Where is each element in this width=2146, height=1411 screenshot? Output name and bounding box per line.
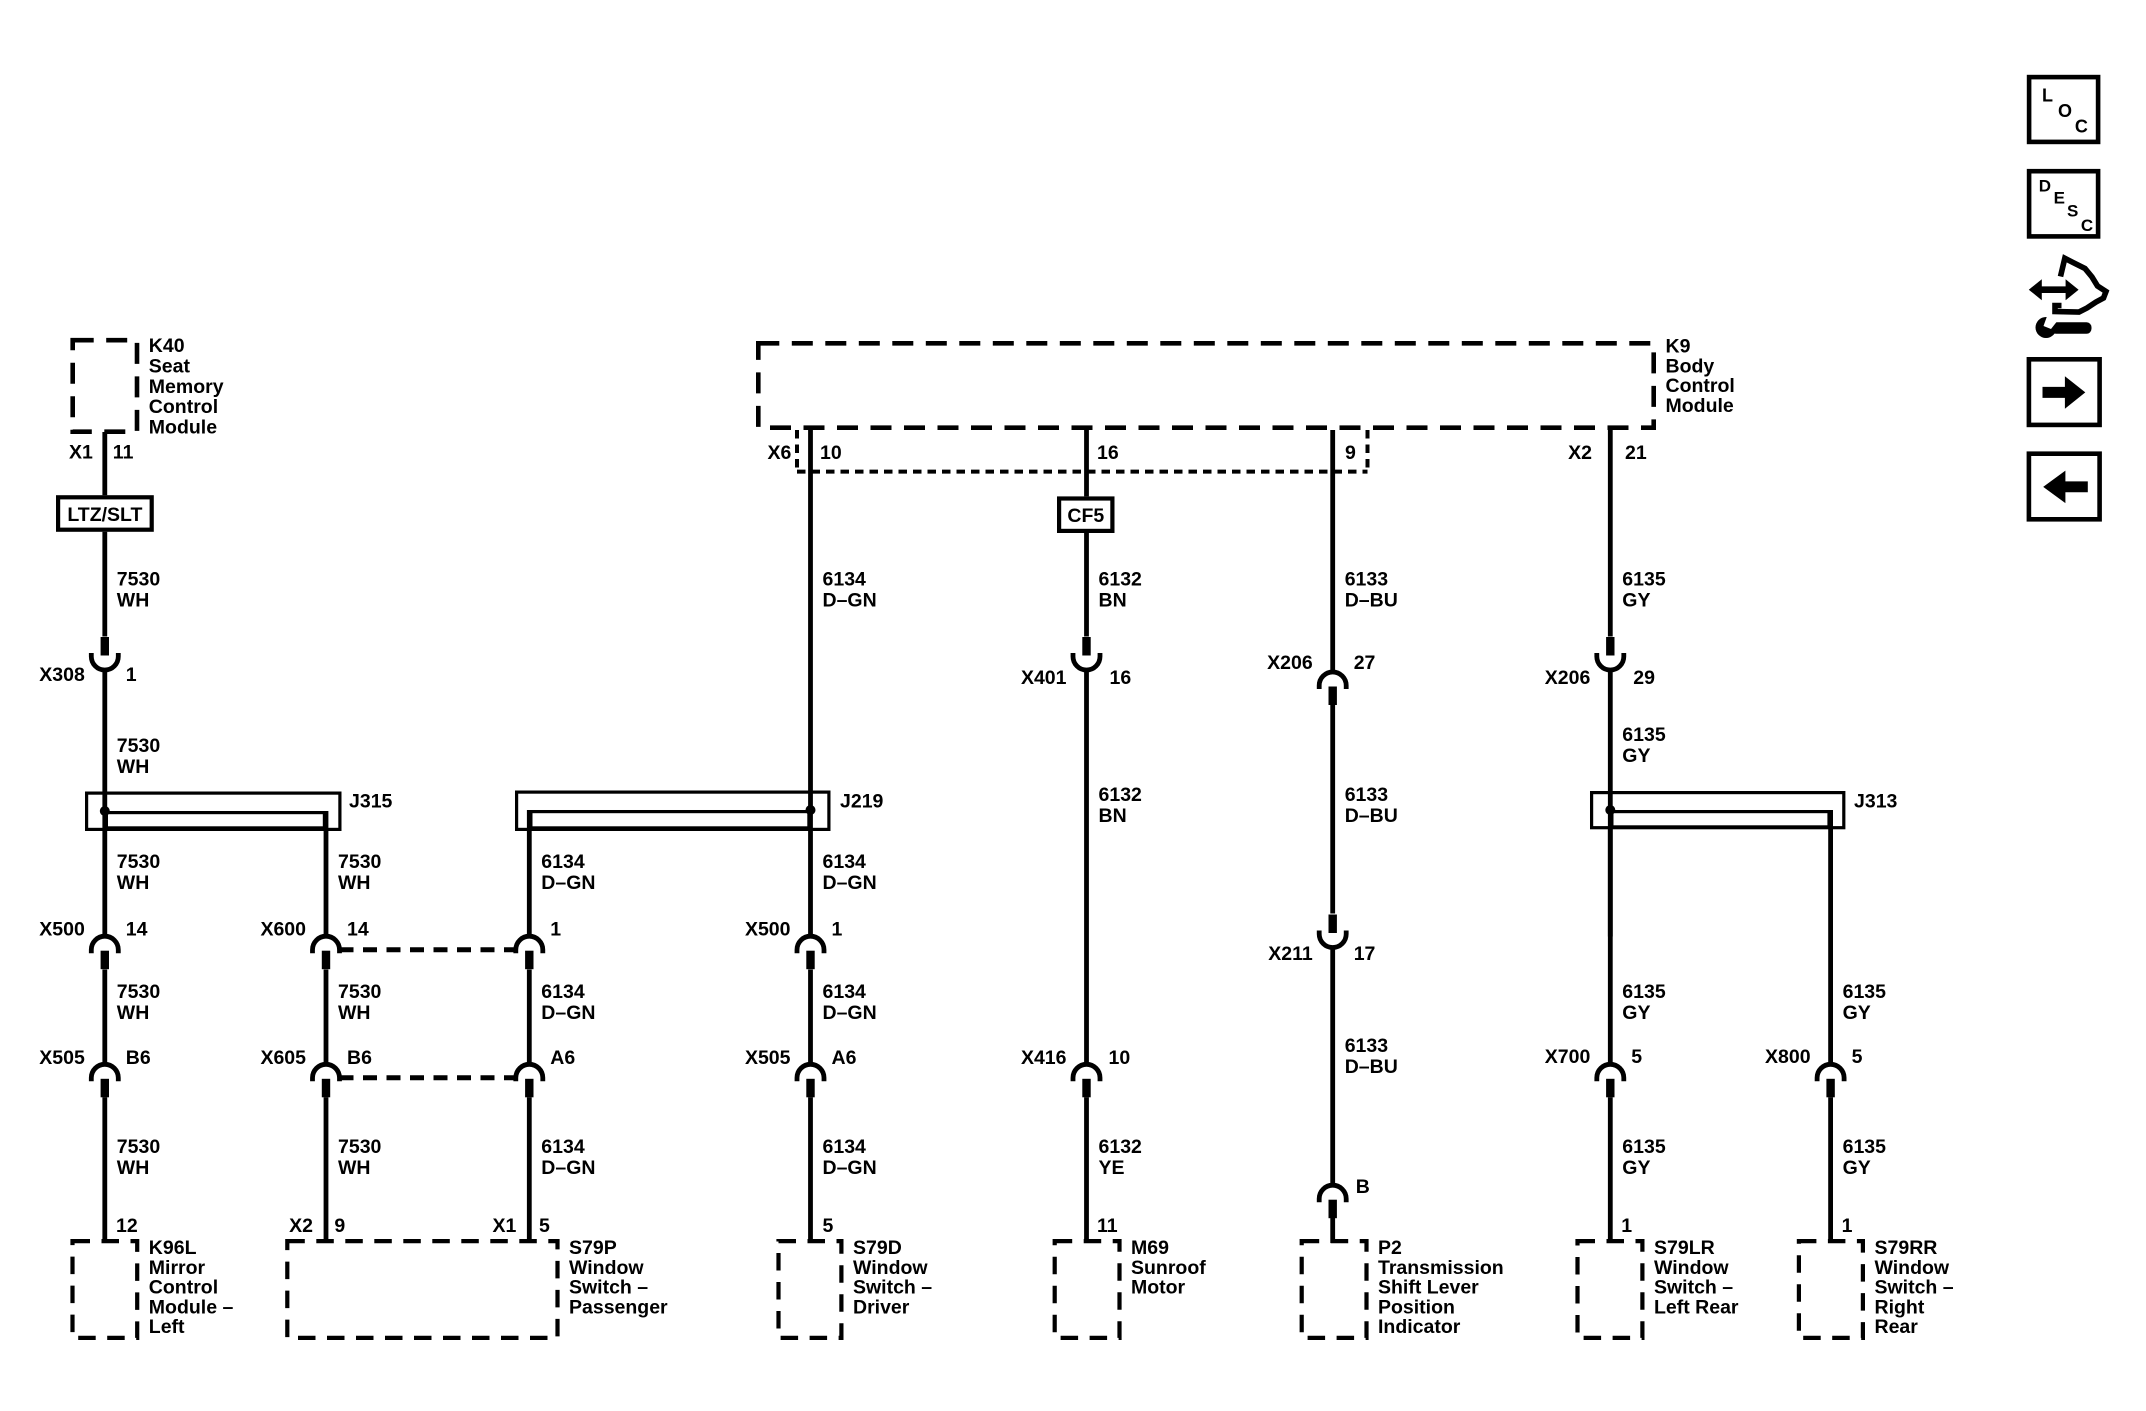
wire 6132 BN CF5 to X401 xyxy=(1084,533,1089,637)
svg-text:Sunroof: Sunroof xyxy=(1131,1257,1206,1279)
svg-text:BN: BN xyxy=(1099,590,1127,612)
svg-text:Control: Control xyxy=(149,396,218,418)
svg-text:M69: M69 xyxy=(1131,1237,1169,1259)
svg-text:O: O xyxy=(2058,101,2072,121)
module K96L Mirror Control Module - Left xyxy=(73,1241,138,1338)
wire 6134 D-GN X505 to S79D xyxy=(808,1097,813,1243)
wire 6135 GY K9 pin21 to X206-29 xyxy=(1608,430,1613,637)
wire 6135 GY J313 to X700 upper xyxy=(1608,829,1613,1064)
svg-text:X401: X401 xyxy=(1021,667,1067,689)
wire 7530 WH X308 to J315 xyxy=(102,670,107,937)
svg-text:X1: X1 xyxy=(69,442,93,464)
svg-text:7530: 7530 xyxy=(117,1136,161,1158)
svg-text:S79RR: S79RR xyxy=(1875,1237,1938,1259)
svg-text:Left Rear: Left Rear xyxy=(1654,1296,1739,1318)
svg-text:X500: X500 xyxy=(39,919,85,941)
wire 6135 GY X206 to J313 xyxy=(1608,670,1613,937)
svg-text:P2: P2 xyxy=(1378,1237,1402,1259)
svg-text:Window: Window xyxy=(1875,1257,1950,1279)
connector X6 bracket of K9 xyxy=(795,430,799,472)
wire 6133 D-BU X206 to X211 xyxy=(1330,705,1335,914)
svg-text:WH: WH xyxy=(338,1157,371,1179)
svg-text:10: 10 xyxy=(1109,1047,1131,1069)
wire 7530 WH X505 to K96L xyxy=(102,1097,107,1243)
svg-text:X2: X2 xyxy=(1568,442,1592,464)
svg-text:6135: 6135 xyxy=(1843,1136,1887,1158)
svg-text:16: 16 xyxy=(1110,667,1132,689)
svg-text:X600: X600 xyxy=(260,919,306,941)
wire 6135 GY X800 to S79RR xyxy=(1828,1097,1833,1243)
svg-text:S79P: S79P xyxy=(569,1237,617,1259)
wire 6135 GY X700 to S79LR xyxy=(1608,1097,1613,1243)
svg-text:Shift Lever: Shift Lever xyxy=(1378,1277,1479,1299)
svg-text:Switch –: Switch – xyxy=(569,1277,648,1299)
module K40 Seat Memory Control Module xyxy=(73,340,137,432)
svg-text:7530: 7530 xyxy=(117,735,161,757)
svg-text:6135: 6135 xyxy=(1843,981,1887,1003)
svg-text:WH: WH xyxy=(117,872,150,894)
svg-text:11: 11 xyxy=(1097,1215,1118,1237)
svg-text:X416: X416 xyxy=(1021,1047,1067,1069)
svg-text:6133: 6133 xyxy=(1345,1035,1389,1057)
svg-text:7530: 7530 xyxy=(338,851,382,873)
svg-text:10: 10 xyxy=(820,442,842,464)
svg-text:Control: Control xyxy=(1666,375,1735,397)
svg-text:Switch –: Switch – xyxy=(853,1277,932,1299)
module S79RR Window Switch - Right Rear xyxy=(1799,1241,1863,1338)
svg-text:Window: Window xyxy=(853,1257,928,1279)
inline connector X500 pin 14 xyxy=(91,936,118,953)
svg-text:Memory: Memory xyxy=(149,376,224,398)
svg-text:7530: 7530 xyxy=(117,851,161,873)
svg-text:Control: Control xyxy=(149,1277,218,1299)
svg-text:J219: J219 xyxy=(840,791,884,813)
icon jump double arrow xyxy=(2029,279,2079,300)
svg-text:Body: Body xyxy=(1666,355,1715,377)
svg-text:GY: GY xyxy=(1622,1002,1650,1024)
icon LOC box xyxy=(2029,77,2098,142)
svg-text:Seat: Seat xyxy=(149,355,191,377)
svg-text:Motor: Motor xyxy=(1131,1277,1186,1299)
svg-text:1: 1 xyxy=(1842,1215,1853,1237)
wire 6132 YE X416 to M69 xyxy=(1084,1097,1089,1243)
svg-text:7530: 7530 xyxy=(117,981,161,1003)
inline connector X800 pin 5 xyxy=(1817,1064,1844,1081)
wire from K9 pin 16 to fuse CF5 xyxy=(1084,430,1089,496)
svg-text:S79LR: S79LR xyxy=(1654,1237,1715,1259)
svg-text:D–GN: D–GN xyxy=(541,1157,595,1179)
svg-text:C: C xyxy=(2081,216,2093,235)
svg-text:6134: 6134 xyxy=(541,851,585,873)
wire 6132 BN X401 to X416 xyxy=(1084,670,1089,1065)
svg-text:27: 27 xyxy=(1354,652,1376,674)
svg-text:Position: Position xyxy=(1378,1296,1455,1318)
svg-text:D–BU: D–BU xyxy=(1345,805,1398,827)
svg-text:Module: Module xyxy=(149,417,217,439)
inline connector X700 pin 5 xyxy=(1597,1064,1624,1081)
svg-text:1: 1 xyxy=(126,664,137,686)
inline connector X211 pin 17 xyxy=(1319,931,1346,948)
splice J313 xyxy=(1592,793,1844,828)
svg-text:14: 14 xyxy=(347,919,369,941)
svg-text:GY: GY xyxy=(1843,1002,1871,1024)
svg-text:Driver: Driver xyxy=(853,1296,910,1318)
svg-text:Passenger: Passenger xyxy=(569,1296,668,1318)
dashed link X600-14 to 1 xyxy=(340,947,516,952)
svg-text:9: 9 xyxy=(1345,442,1356,464)
svg-text:C: C xyxy=(2075,117,2088,137)
splice J219 xyxy=(517,792,829,829)
svg-text:LTZ/SLT: LTZ/SLT xyxy=(67,504,142,526)
inline connector X308 pin 1 xyxy=(91,653,118,670)
svg-text:X206: X206 xyxy=(1545,667,1591,689)
wire 6135 GY J313 to X800 xyxy=(1828,810,1833,1064)
svg-text:6135: 6135 xyxy=(1622,981,1666,1003)
svg-text:9: 9 xyxy=(334,1215,345,1237)
svg-text:6134: 6134 xyxy=(823,851,867,873)
svg-text:YE: YE xyxy=(1099,1157,1125,1179)
svg-text:5: 5 xyxy=(539,1215,550,1237)
svg-text:X605: X605 xyxy=(260,1047,306,1069)
fuse CF5 box xyxy=(1059,499,1112,531)
svg-text:6135: 6135 xyxy=(1622,569,1666,591)
svg-text:D–GN: D–GN xyxy=(541,1002,595,1024)
svg-text:E: E xyxy=(2054,189,2065,208)
inline connector X500 pin 1 xyxy=(797,936,824,953)
svg-text:5: 5 xyxy=(1852,1046,1863,1068)
inline connector pin B xyxy=(1319,1185,1346,1202)
svg-text:L: L xyxy=(2042,85,2053,105)
svg-text:1: 1 xyxy=(1621,1215,1632,1237)
icon DESC box xyxy=(2029,171,2098,236)
svg-text:1: 1 xyxy=(832,919,843,941)
module M69 Sunroof Motor xyxy=(1055,1241,1120,1338)
svg-text:GY: GY xyxy=(1622,745,1650,767)
svg-text:D–GN: D–GN xyxy=(823,590,877,612)
svg-text:Transmission: Transmission xyxy=(1378,1257,1504,1279)
wire 6134 D-GN K9 pin10 to J219 xyxy=(808,430,813,937)
svg-text:X700: X700 xyxy=(1545,1046,1591,1068)
splice J315 xyxy=(87,793,340,829)
svg-text:X2: X2 xyxy=(289,1215,313,1237)
svg-text:B: B xyxy=(1356,1176,1370,1198)
svg-text:D–GN: D–GN xyxy=(823,1157,877,1179)
svg-text:6135: 6135 xyxy=(1622,1136,1666,1158)
svg-text:X1: X1 xyxy=(492,1215,516,1237)
svg-text:X308: X308 xyxy=(39,664,85,686)
svg-text:K9: K9 xyxy=(1666,335,1691,357)
svg-text:14: 14 xyxy=(126,919,148,941)
inline connector X206 pin 29 xyxy=(1597,653,1624,670)
inline connector X401 pin 16 xyxy=(1073,653,1100,670)
svg-text:X206: X206 xyxy=(1267,652,1313,674)
svg-text:Indicator: Indicator xyxy=(1378,1316,1461,1338)
svg-text:Right: Right xyxy=(1875,1296,1925,1318)
svg-text:6132: 6132 xyxy=(1099,569,1143,591)
svg-text:17: 17 xyxy=(1354,943,1376,965)
svg-text:X500: X500 xyxy=(745,919,791,941)
module S79LR Window Switch - Left Rear xyxy=(1578,1241,1643,1338)
wire 7530 WH X600 to X605 xyxy=(324,970,329,1065)
svg-text:GY: GY xyxy=(1622,590,1650,612)
wire from K40 X1-11 to LTZ/SLT box xyxy=(102,432,107,495)
svg-text:6132: 6132 xyxy=(1099,784,1143,806)
svg-text:1: 1 xyxy=(550,919,561,941)
icon jump outline scribble xyxy=(2055,258,2106,312)
dashed link X605-B6 to A6 xyxy=(340,1075,516,1080)
svg-text:A6: A6 xyxy=(550,1047,575,1069)
module K9 Body Control Module xyxy=(758,343,1653,427)
icon next page arrow box xyxy=(2029,359,2100,425)
svg-text:Window: Window xyxy=(1654,1257,1729,1279)
svg-text:6134: 6134 xyxy=(823,1136,867,1158)
svg-text:S79D: S79D xyxy=(853,1237,902,1259)
option label box LTZ/SLT xyxy=(58,497,152,529)
icon previous page arrow box xyxy=(2029,454,2100,520)
svg-text:X211: X211 xyxy=(1268,943,1313,965)
wire 6134 D-GN col3 mid xyxy=(527,970,532,1065)
svg-text:S: S xyxy=(2067,202,2078,221)
svg-text:D: D xyxy=(2039,176,2051,195)
svg-text:D–GN: D–GN xyxy=(823,1002,877,1024)
svg-text:Left: Left xyxy=(149,1316,185,1338)
svg-text:Switch –: Switch – xyxy=(1654,1277,1733,1299)
wire 7530 WH LTZ/SLT to X308 xyxy=(102,532,107,637)
wire 6134 D-GN col3 to S79P X1-5 xyxy=(527,1097,532,1243)
svg-text:WH: WH xyxy=(338,1002,371,1024)
module P2 Transmission Shift Lever Position Indicator xyxy=(1302,1241,1367,1338)
svg-text:D–GN: D–GN xyxy=(541,872,595,894)
svg-text:J315: J315 xyxy=(349,791,393,813)
svg-text:X800: X800 xyxy=(1765,1046,1811,1068)
svg-text:5: 5 xyxy=(1631,1046,1642,1068)
inline connector X206 pin 27 xyxy=(1319,672,1346,689)
wire 6133 D-BU B to P2 xyxy=(1330,1218,1335,1243)
svg-text:6134: 6134 xyxy=(541,1136,585,1158)
wire 6133 D-BU K9 pin9 to X206-27 xyxy=(1330,430,1335,672)
svg-text:7530: 7530 xyxy=(338,1136,382,1158)
svg-text:Mirror: Mirror xyxy=(149,1257,206,1279)
wire 7530 WH X605 to S79P X2-9 xyxy=(324,1097,329,1243)
inline connector pin A6 col3 xyxy=(516,1064,543,1081)
wire 7530 WH X500 to X505 xyxy=(102,970,107,1065)
wire 6134 D-GN J219 to conn 1 xyxy=(527,810,532,937)
svg-text:D–GN: D–GN xyxy=(823,872,877,894)
svg-text:GY: GY xyxy=(1843,1157,1871,1179)
svg-text:11: 11 xyxy=(113,442,134,464)
svg-text:X6: X6 xyxy=(768,442,792,464)
module S79D Window Switch - Driver xyxy=(779,1241,842,1338)
svg-text:21: 21 xyxy=(1625,442,1647,464)
svg-text:29: 29 xyxy=(1633,667,1655,689)
svg-text:WH: WH xyxy=(117,590,150,612)
svg-text:Module –: Module – xyxy=(149,1296,234,1318)
svg-text:GY: GY xyxy=(1622,1157,1650,1179)
svg-text:WH: WH xyxy=(117,1002,150,1024)
svg-text:K96L: K96L xyxy=(149,1237,197,1259)
svg-text:X505: X505 xyxy=(39,1047,85,1069)
svg-text:X505: X505 xyxy=(745,1047,791,1069)
wire 6134 D-GN X500 to X505 col4 xyxy=(808,970,813,1065)
svg-text:J313: J313 xyxy=(1854,791,1898,813)
svg-text:6132: 6132 xyxy=(1099,1136,1143,1158)
module S79P Window Switch - Passenger xyxy=(287,1241,557,1338)
svg-text:7530: 7530 xyxy=(117,569,161,591)
svg-text:A6: A6 xyxy=(832,1047,857,1069)
svg-text:5: 5 xyxy=(823,1215,834,1237)
svg-text:6134: 6134 xyxy=(823,569,867,591)
inline connector pin 1 col3 xyxy=(516,936,543,953)
wire 7530 WH J315 to X600 xyxy=(324,811,329,937)
svg-text:CF5: CF5 xyxy=(1067,505,1104,527)
svg-text:6134: 6134 xyxy=(823,981,867,1003)
svg-text:7530: 7530 xyxy=(338,981,382,1003)
svg-text:Window: Window xyxy=(569,1257,644,1279)
svg-text:WH: WH xyxy=(117,756,150,778)
wire 6133 D-BU X211 to B xyxy=(1330,947,1335,1185)
svg-text:Rear: Rear xyxy=(1875,1316,1919,1338)
inline connector X505 pin B6 xyxy=(91,1064,118,1081)
svg-text:16: 16 xyxy=(1097,442,1119,464)
icon wrench xyxy=(2036,317,2057,338)
svg-text:12: 12 xyxy=(116,1215,138,1237)
svg-text:D–BU: D–BU xyxy=(1345,1056,1398,1078)
svg-text:BN: BN xyxy=(1099,805,1127,827)
inline connector X605 pin B6 xyxy=(313,1064,340,1081)
svg-text:6133: 6133 xyxy=(1345,569,1389,591)
svg-text:Module: Module xyxy=(1666,395,1734,417)
svg-text:B6: B6 xyxy=(347,1047,372,1069)
inline connector X416 pin 10 xyxy=(1073,1064,1100,1081)
svg-text:B6: B6 xyxy=(126,1047,151,1069)
inline connector X505 pin A6 xyxy=(797,1064,824,1081)
svg-text:D–BU: D–BU xyxy=(1345,590,1398,612)
svg-text:6135: 6135 xyxy=(1622,724,1666,746)
svg-text:WH: WH xyxy=(117,1157,150,1179)
svg-text:Switch –: Switch – xyxy=(1875,1277,1954,1299)
svg-text:6134: 6134 xyxy=(541,981,585,1003)
svg-text:6133: 6133 xyxy=(1345,784,1389,806)
inline connector X600 pin 14 xyxy=(313,936,340,953)
svg-text:K40: K40 xyxy=(149,335,185,357)
svg-text:WH: WH xyxy=(338,872,371,894)
